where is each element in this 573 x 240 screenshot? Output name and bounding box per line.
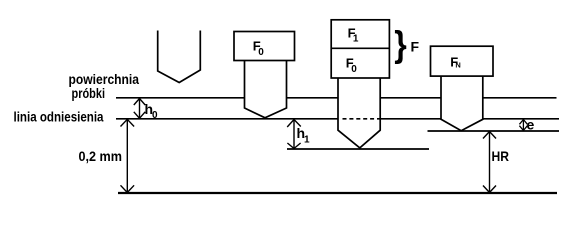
svg-text:1: 1 [304, 135, 310, 146]
divider line between F1 and F0 cells [331, 47, 389, 49]
dimension arrow 0,2 mm (reference to bottom) [121, 119, 135, 192]
indenter body under F0 [245, 61, 287, 118]
surface line segment between F1 and FN indenters [380, 97, 441, 99]
reference line segment left [116, 118, 338, 120]
svg-text:1: 1 [353, 34, 359, 45]
reference line dashed inside F1 indenter shank [343, 118, 381, 120]
bottom datum line [118, 192, 557, 194]
e-depth line under FN indenter [428, 130, 560, 132]
reference line segment right [483, 118, 559, 120]
svg-text:0: 0 [258, 47, 264, 58]
svg-text:e: e [527, 117, 535, 133]
surface line segment left [116, 97, 245, 99]
svg-text:N: N [455, 60, 460, 69]
svg-text:próbki: próbki [72, 85, 106, 101]
dimension arrow HR (e line to bottom) [483, 132, 496, 193]
load block FN rectangle [431, 46, 494, 76]
load block F0 rectangle [234, 32, 295, 61]
surface line segment between F0 and F1 indenters [286, 97, 338, 99]
svg-text:0,2 mm: 0,2 mm [79, 148, 123, 164]
dimension arrow e (reference to e line) [519, 120, 527, 131]
indenter body under FN [441, 76, 483, 131]
svg-text:linia odniesienia: linia odniesienia [14, 109, 104, 125]
indenter (unloaded) outline [158, 31, 201, 83]
dimension arrow h1 (reference to h1 line) [287, 120, 301, 149]
svg-text:0: 0 [152, 110, 158, 121]
dimension arrow h0 (surface to reference) [134, 99, 145, 119]
svg-text:F: F [411, 39, 420, 55]
load block F1+F0 rectangle [331, 20, 389, 78]
svg-text:0: 0 [351, 64, 357, 75]
svg-text:}: } [394, 23, 407, 64]
h1-depth line under F1 indenter [287, 148, 429, 150]
reference line segment middle [381, 118, 442, 120]
svg-text:HR: HR [492, 148, 510, 164]
indenter body under F1+F0 [338, 78, 380, 148]
surface line segment right [483, 97, 557, 99]
